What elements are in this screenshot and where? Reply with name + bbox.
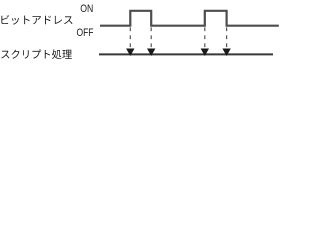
svg-text:OFF: OFF [77,27,94,39]
svg-text:ON: ON [80,3,93,15]
